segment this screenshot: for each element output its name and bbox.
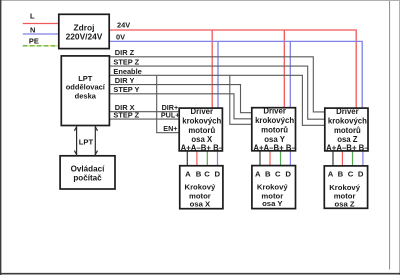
svg-text:Krokový: Krokový <box>329 183 360 192</box>
svg-text:počítač: počítač <box>73 173 102 182</box>
svg-text:N: N <box>30 25 35 34</box>
svg-text:Ovládací: Ovládací <box>71 165 105 174</box>
svg-text:deska: deska <box>75 91 97 100</box>
svg-text:DIR Y: DIR Y <box>115 76 135 85</box>
svg-text:STEP Z: STEP Z <box>113 111 139 120</box>
svg-text:C: C <box>275 169 281 178</box>
svg-text:motorů: motorů <box>261 126 288 135</box>
svg-text:24V: 24V <box>117 20 130 29</box>
svg-text:A: A <box>328 170 334 179</box>
svg-text:A: A <box>255 169 261 178</box>
svg-text:osa Y: osa Y <box>262 199 282 208</box>
svg-text:Driver: Driver <box>263 107 286 116</box>
svg-text:A+A–B+ B–: A+A–B+ B– <box>253 144 296 153</box>
svg-text:Krokový: Krokový <box>185 183 216 192</box>
svg-text:STEP Y: STEP Y <box>113 85 139 94</box>
svg-text:A+A–B+ B–: A+A–B+ B– <box>326 144 369 153</box>
svg-text:LPT: LPT <box>79 138 94 147</box>
svg-text:osa Z: osa Z <box>335 199 355 208</box>
svg-text:Krokový: Krokový <box>257 183 288 192</box>
svg-text:Eneable: Eneable <box>113 67 141 76</box>
svg-text:A: A <box>185 169 191 178</box>
svg-text:oddělovací: oddělovací <box>66 83 106 92</box>
svg-text:B: B <box>196 169 202 178</box>
svg-text:B: B <box>338 170 344 179</box>
svg-text:A+A–B+ B–: A+A–B+ B– <box>181 144 224 153</box>
svg-text:B: B <box>265 169 271 178</box>
svg-text:PE: PE <box>29 37 39 46</box>
svg-text:D: D <box>358 170 364 179</box>
svg-text:STEP Z: STEP Z <box>113 58 139 67</box>
svg-text:Driver: Driver <box>336 107 359 116</box>
svg-text:220V/24V: 220V/24V <box>66 32 103 42</box>
svg-text:C: C <box>348 170 354 179</box>
svg-text:0V: 0V <box>116 32 125 41</box>
svg-text:D: D <box>215 169 221 178</box>
svg-text:motorů: motorů <box>334 126 361 135</box>
svg-text:Driver: Driver <box>191 107 214 116</box>
svg-text:krokových: krokových <box>255 116 294 125</box>
svg-text:krokových: krokových <box>182 116 221 125</box>
svg-text:C: C <box>204 169 210 178</box>
svg-text:PUL+: PUL+ <box>161 111 180 120</box>
svg-text:motorů: motorů <box>188 126 215 135</box>
svg-text:EN+: EN+ <box>163 124 177 133</box>
svg-text:osa X: osa X <box>190 199 211 208</box>
svg-text:krokových: krokových <box>328 116 367 125</box>
svg-text:L: L <box>30 12 35 21</box>
svg-text:DIR Z: DIR Z <box>115 48 135 57</box>
svg-text:D: D <box>285 169 291 178</box>
